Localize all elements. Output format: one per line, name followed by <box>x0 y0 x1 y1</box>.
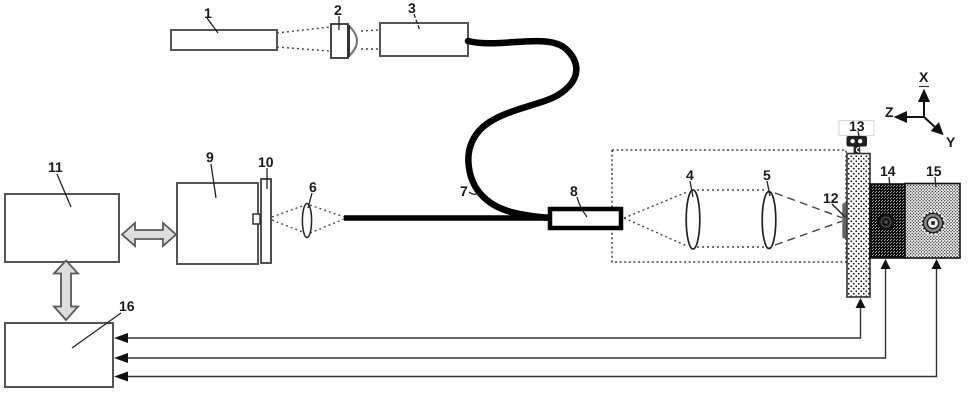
svg-text:3: 3 <box>408 0 416 16</box>
svg-text:4: 4 <box>686 167 694 183</box>
svg-text:11: 11 <box>48 159 63 175</box>
svg-text:Z: Z <box>885 104 894 120</box>
svg-text:8: 8 <box>570 183 578 199</box>
svg-text:7: 7 <box>460 183 468 199</box>
svg-text:2: 2 <box>334 2 342 18</box>
svg-text:10: 10 <box>258 154 274 170</box>
svg-text:9: 9 <box>206 149 214 165</box>
svg-text:15: 15 <box>926 163 942 179</box>
svg-text:16: 16 <box>119 298 135 314</box>
svg-text:6: 6 <box>309 179 317 195</box>
svg-text:13: 13 <box>849 118 865 134</box>
svg-text:X: X <box>919 69 929 85</box>
svg-text:5: 5 <box>763 167 771 183</box>
svg-text:Y: Y <box>946 134 956 150</box>
svg-text:14: 14 <box>880 163 896 179</box>
svg-text:12: 12 <box>823 190 839 206</box>
